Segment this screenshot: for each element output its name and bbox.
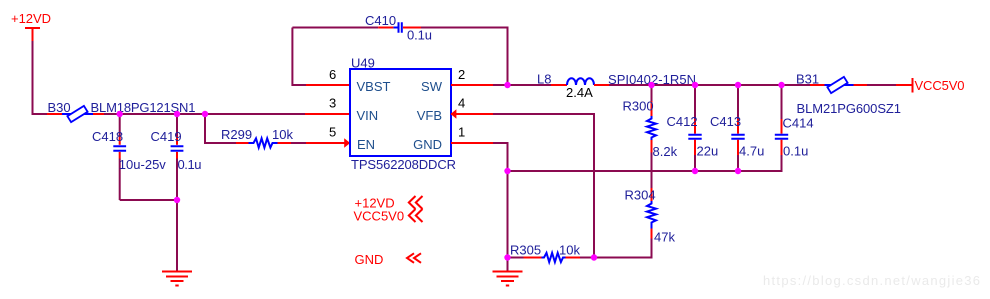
svg-text:VCC5V0: VCC5V0 xyxy=(354,209,405,224)
svg-text:C414: C414 xyxy=(783,116,814,131)
svg-text:6: 6 xyxy=(329,67,336,82)
svg-text:5: 5 xyxy=(329,124,336,139)
svg-text:B30: B30 xyxy=(48,100,71,115)
svg-text:L8: L8 xyxy=(537,72,551,87)
svg-text:22u: 22u xyxy=(697,144,719,159)
svg-text:C418: C418 xyxy=(92,129,123,144)
svg-text:4: 4 xyxy=(458,96,465,111)
svg-text:2.4A: 2.4A xyxy=(566,85,593,100)
svg-text:2: 2 xyxy=(458,67,465,82)
svg-text:U49: U49 xyxy=(351,56,375,71)
svg-text:8.2k: 8.2k xyxy=(653,144,678,159)
svg-text:C410: C410 xyxy=(365,13,396,28)
svg-text:4.7u: 4.7u xyxy=(739,144,764,159)
svg-text:10k: 10k xyxy=(559,243,580,258)
svg-text:GND: GND xyxy=(355,252,384,267)
svg-text:https://blog.csdn.net/wangjie3: https://blog.csdn.net/wangjie36 xyxy=(763,273,980,288)
svg-text:R305: R305 xyxy=(510,243,541,258)
svg-text:TPS562208DDCR: TPS562208DDCR xyxy=(351,157,456,172)
svg-text:VBST: VBST xyxy=(357,79,391,94)
svg-text:BLM21PG600SZ1: BLM21PG600SZ1 xyxy=(797,101,902,116)
svg-text:R304: R304 xyxy=(625,188,656,203)
svg-text:0.1u: 0.1u xyxy=(178,157,202,172)
svg-text:VCC5V0: VCC5V0 xyxy=(915,78,965,93)
svg-text:GND: GND xyxy=(413,137,442,152)
svg-text:R300: R300 xyxy=(623,99,654,114)
svg-text:0.1u: 0.1u xyxy=(783,144,808,159)
svg-text:1: 1 xyxy=(458,124,465,139)
svg-text:C412: C412 xyxy=(667,114,698,129)
svg-text:10k: 10k xyxy=(272,127,293,142)
svg-text:C419: C419 xyxy=(151,129,182,144)
svg-text:VIN: VIN xyxy=(357,108,379,123)
svg-text:R299: R299 xyxy=(221,127,252,142)
svg-text:C413: C413 xyxy=(710,114,741,129)
svg-text:0.1u: 0.1u xyxy=(407,28,432,43)
svg-text:10u-25v: 10u-25v xyxy=(119,157,167,172)
svg-text:3: 3 xyxy=(329,96,336,111)
svg-text:SW: SW xyxy=(421,79,443,94)
svg-text:VFB: VFB xyxy=(417,108,442,123)
svg-text:+12VD: +12VD xyxy=(11,11,51,26)
svg-text:47k: 47k xyxy=(654,230,675,245)
svg-text:B31: B31 xyxy=(796,72,819,87)
svg-text:EN: EN xyxy=(357,137,375,152)
